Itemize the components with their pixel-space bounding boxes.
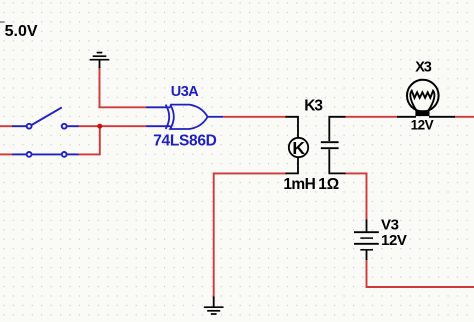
svg-text:V3: V3 [381, 216, 399, 233]
svg-text:12V: 12V [381, 232, 407, 249]
svg-text:U3A: U3A [171, 84, 199, 100]
svg-text:12V: 12V [411, 117, 434, 132]
svg-text:5.0V: 5.0V [5, 23, 38, 40]
svg-text:X3: X3 [415, 59, 432, 75]
svg-text:74LS86D: 74LS86D [153, 133, 216, 150]
svg-text:K3: K3 [304, 98, 323, 115]
svg-text:1Ω: 1Ω [318, 176, 339, 193]
svg-text:K: K [292, 138, 305, 158]
svg-text:1mH: 1mH [283, 176, 315, 193]
